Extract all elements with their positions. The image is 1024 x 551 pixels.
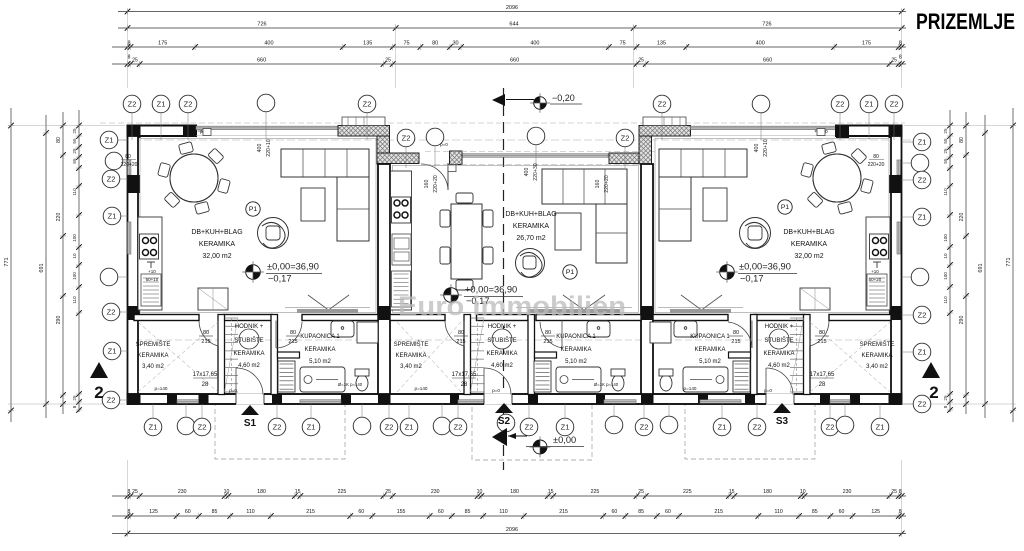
svg-text:60+10: 60+10 xyxy=(146,277,159,282)
svg-text:Z1: Z1 xyxy=(108,211,117,220)
svg-text:p=0: p=0 xyxy=(492,388,500,393)
svg-text:+10: +10 xyxy=(148,269,156,274)
svg-text:110: 110 xyxy=(943,296,948,304)
svg-text:2096: 2096 xyxy=(506,527,518,533)
svg-text:60: 60 xyxy=(358,509,364,515)
svg-text:215: 215 xyxy=(714,509,723,515)
svg-text:225: 225 xyxy=(683,489,692,495)
svg-text:225: 225 xyxy=(591,489,600,495)
svg-text:17x17,65: 17x17,65 xyxy=(452,372,477,378)
svg-text:26,70 m2: 26,70 m2 xyxy=(516,235,545,242)
svg-text:Z1: Z1 xyxy=(561,422,570,431)
svg-text:110: 110 xyxy=(499,509,507,515)
svg-text:Z2: Z2 xyxy=(525,422,534,431)
svg-text:KUPAONICA 1: KUPAONICA 1 xyxy=(690,334,730,340)
svg-text:50+20: 50+20 xyxy=(869,277,882,282)
svg-text:215: 215 xyxy=(817,339,826,345)
svg-text:DB+KUH+BLAG: DB+KUH+BLAG xyxy=(191,229,242,236)
svg-text:KERAMIKA: KERAMIKA xyxy=(513,223,550,230)
svg-text:175: 175 xyxy=(862,40,871,46)
svg-text:KERAMIKA: KERAMIKA xyxy=(763,351,794,357)
svg-text:726: 726 xyxy=(762,21,771,27)
svg-text:75: 75 xyxy=(403,40,409,46)
svg-text:215: 215 xyxy=(456,339,465,345)
svg-text:p=0: p=0 xyxy=(440,142,448,147)
svg-text:−0,20: −0,20 xyxy=(552,93,575,103)
svg-text:S2: S2 xyxy=(498,416,511,427)
svg-text:85: 85 xyxy=(812,509,818,515)
svg-text:±0,00: ±0,00 xyxy=(553,435,576,445)
svg-text:80: 80 xyxy=(432,40,438,46)
svg-text:P1: P1 xyxy=(566,269,575,276)
svg-text:Z1: Z1 xyxy=(918,347,927,356)
svg-text:8: 8 xyxy=(899,509,902,515)
svg-text:Z1: Z1 xyxy=(405,422,414,431)
svg-text:180: 180 xyxy=(763,489,772,495)
svg-text:Z2: Z2 xyxy=(454,422,463,431)
svg-text:SPREMIŠTE: SPREMIŠTE xyxy=(394,341,429,348)
svg-text:220+30: 220+30 xyxy=(533,163,539,181)
svg-text:Z1: Z1 xyxy=(157,99,166,108)
svg-text:Z2: Z2 xyxy=(363,99,372,108)
svg-text:400: 400 xyxy=(530,40,539,46)
svg-text:220+20: 220+20 xyxy=(868,162,885,168)
svg-text:8: 8 xyxy=(128,509,131,515)
svg-text:80: 80 xyxy=(959,137,965,143)
svg-text:215: 215 xyxy=(306,509,315,515)
svg-text:400: 400 xyxy=(524,168,530,177)
svg-text:10: 10 xyxy=(943,253,948,259)
svg-text:10: 10 xyxy=(800,489,806,495)
svg-text:25: 25 xyxy=(943,148,948,154)
svg-text:25: 25 xyxy=(943,395,948,401)
svg-text:80: 80 xyxy=(458,330,464,336)
svg-text:771: 771 xyxy=(1006,257,1012,266)
svg-text:Ø=1K p=140: Ø=1K p=140 xyxy=(594,382,619,387)
svg-text:25: 25 xyxy=(72,128,77,134)
svg-text:28: 28 xyxy=(202,382,209,388)
svg-text:691: 691 xyxy=(39,263,45,272)
svg-text:KERAMIKA: KERAMIKA xyxy=(137,353,168,359)
svg-text:230: 230 xyxy=(178,489,187,495)
svg-text:225: 225 xyxy=(338,489,347,495)
svg-text:25: 25 xyxy=(72,395,77,401)
svg-text:Z2: Z2 xyxy=(640,422,649,431)
svg-text:28: 28 xyxy=(461,382,468,388)
svg-text:2096: 2096 xyxy=(506,5,518,11)
svg-text:771: 771 xyxy=(4,257,10,266)
svg-text:15: 15 xyxy=(295,489,301,495)
svg-text:220+10: 220+10 xyxy=(763,139,769,157)
svg-text:Z1: Z1 xyxy=(718,422,727,431)
svg-text:80: 80 xyxy=(290,330,296,336)
svg-text:Z2: Z2 xyxy=(836,99,845,108)
svg-text:KERAMIKA: KERAMIKA xyxy=(861,353,892,359)
svg-text:Euro immobilien: Euro immobilien xyxy=(398,291,626,321)
svg-text:STUBIŠTE: STUBIŠTE xyxy=(234,337,263,344)
svg-text:PRIZEMLJE: PRIZEMLJE xyxy=(916,9,1015,34)
svg-text:60: 60 xyxy=(611,509,617,515)
svg-text:85: 85 xyxy=(212,509,218,515)
svg-text:60: 60 xyxy=(185,509,191,515)
svg-text:660: 660 xyxy=(763,57,772,63)
svg-text:5,10 m2: 5,10 m2 xyxy=(565,359,587,365)
svg-text:125: 125 xyxy=(149,509,158,515)
svg-text:8: 8 xyxy=(899,55,902,61)
svg-text:Z2: Z2 xyxy=(107,307,116,316)
svg-text:2: 2 xyxy=(94,383,103,402)
svg-text:17x17,65: 17x17,65 xyxy=(193,372,218,378)
svg-text:3,40 m2: 3,40 m2 xyxy=(142,364,164,370)
svg-text:8: 8 xyxy=(899,40,902,46)
svg-text:660: 660 xyxy=(257,57,266,63)
svg-text:25: 25 xyxy=(638,57,644,63)
svg-text:Z1: Z1 xyxy=(918,137,927,146)
svg-text:55: 55 xyxy=(943,158,948,164)
svg-text:5,10 m2: 5,10 m2 xyxy=(309,359,331,365)
svg-text:8: 8 xyxy=(943,405,948,408)
svg-text:644: 644 xyxy=(509,21,518,27)
svg-text:220+20: 220+20 xyxy=(121,162,138,168)
svg-text:8: 8 xyxy=(128,489,131,495)
svg-text:Z2: Z2 xyxy=(753,422,762,431)
svg-text:Z2: Z2 xyxy=(107,395,116,404)
svg-text:8: 8 xyxy=(72,405,77,408)
svg-text:60: 60 xyxy=(665,509,671,515)
svg-text:p=140: p=140 xyxy=(415,386,428,391)
svg-text:Z2: Z2 xyxy=(918,399,927,408)
svg-text:400: 400 xyxy=(257,144,263,153)
svg-text:75: 75 xyxy=(620,40,626,46)
svg-text:100: 100 xyxy=(943,234,948,242)
svg-text:KUPAONICA 1: KUPAONICA 1 xyxy=(556,334,596,340)
svg-text:125: 125 xyxy=(871,509,880,515)
svg-text:215: 215 xyxy=(731,339,740,345)
svg-text:KERAMIKA: KERAMIKA xyxy=(791,241,828,248)
svg-text:Z1: Z1 xyxy=(105,135,114,144)
svg-text:P1: P1 xyxy=(249,206,258,213)
svg-text:Z2: Z2 xyxy=(107,174,116,183)
svg-text:Z2: Z2 xyxy=(826,422,835,431)
svg-text:3,40 m2: 3,40 m2 xyxy=(866,364,888,370)
svg-text:KERAMIKA: KERAMIKA xyxy=(395,353,426,359)
svg-text:290: 290 xyxy=(56,316,62,325)
svg-text:STUBIŠTE: STUBIŠTE xyxy=(487,337,516,344)
svg-text:25: 25 xyxy=(891,489,897,495)
svg-text:S1: S1 xyxy=(244,418,257,429)
svg-text:215: 215 xyxy=(201,339,210,345)
svg-text:80: 80 xyxy=(819,330,825,336)
svg-text:Z2: Z2 xyxy=(184,99,193,108)
svg-text:30: 30 xyxy=(452,40,458,46)
svg-text:220: 220 xyxy=(56,213,62,222)
svg-text:400: 400 xyxy=(756,40,765,46)
svg-text:80: 80 xyxy=(56,137,62,143)
svg-text:Z2: Z2 xyxy=(621,133,630,142)
svg-text:p=0: p=0 xyxy=(229,388,237,393)
svg-text:STUBIŠTE: STUBIŠTE xyxy=(764,337,793,344)
svg-text:160: 160 xyxy=(424,180,430,189)
svg-text:220+20: 220+20 xyxy=(604,175,610,193)
svg-text:Z1: Z1 xyxy=(876,422,885,431)
svg-text:4,60 m2: 4,60 m2 xyxy=(768,363,790,369)
svg-text:155: 155 xyxy=(397,509,406,515)
svg-text:290: 290 xyxy=(959,316,965,325)
svg-text:KERAMIKA: KERAMIKA xyxy=(560,347,591,353)
svg-text:−0,17: −0,17 xyxy=(740,274,764,284)
svg-text:Z1: Z1 xyxy=(149,422,158,431)
svg-text:4,60 m2: 4,60 m2 xyxy=(238,363,260,369)
svg-text:220+10: 220+10 xyxy=(266,139,272,157)
svg-text:25: 25 xyxy=(132,57,138,63)
svg-text:28: 28 xyxy=(819,382,826,388)
svg-text:215: 215 xyxy=(559,509,568,515)
svg-text:±0,00=36,90: ±0,00=36,90 xyxy=(739,262,791,272)
svg-text:KERAMIKA: KERAMIKA xyxy=(304,347,335,353)
svg-text:8: 8 xyxy=(127,40,130,46)
svg-text:220: 220 xyxy=(959,213,965,222)
svg-text:P1: P1 xyxy=(781,204,790,211)
svg-text:32,00 m2: 32,00 m2 xyxy=(794,253,823,260)
svg-text:Ø=1K p=140: Ø=1K p=140 xyxy=(338,382,363,387)
svg-text:135: 135 xyxy=(363,40,372,46)
svg-text:KERAMIKA: KERAMIKA xyxy=(233,351,264,357)
svg-text:5,10 m2: 5,10 m2 xyxy=(699,359,721,365)
svg-text:Z2: Z2 xyxy=(198,422,207,431)
svg-text:110: 110 xyxy=(943,188,948,196)
svg-text:25: 25 xyxy=(72,148,77,154)
svg-text:Z1: Z1 xyxy=(865,99,874,108)
svg-text:KERAMIKA: KERAMIKA xyxy=(694,347,725,353)
svg-text:8: 8 xyxy=(899,489,902,495)
svg-text:Z2: Z2 xyxy=(918,175,927,184)
svg-text:10: 10 xyxy=(477,489,483,495)
svg-text:60: 60 xyxy=(839,509,845,515)
svg-text:180: 180 xyxy=(257,489,266,495)
svg-text:80: 80 xyxy=(545,330,551,336)
svg-text:100: 100 xyxy=(72,272,77,280)
svg-text:±0,00=36,90: ±0,00=36,90 xyxy=(267,262,319,272)
svg-text:Z2: Z2 xyxy=(128,99,137,108)
svg-text:400: 400 xyxy=(754,144,760,153)
svg-text:Z2: Z2 xyxy=(658,99,667,108)
svg-text:p=0: p=0 xyxy=(764,388,772,393)
svg-text:8: 8 xyxy=(128,55,131,61)
svg-text:85: 85 xyxy=(465,509,471,515)
svg-text:110: 110 xyxy=(775,509,783,515)
svg-text:25: 25 xyxy=(132,489,138,495)
svg-text:215: 215 xyxy=(288,339,297,345)
svg-text:15: 15 xyxy=(548,489,554,495)
svg-text:SPREMIŠTE: SPREMIŠTE xyxy=(860,341,895,348)
svg-text:KERAMIKA: KERAMIKA xyxy=(199,241,236,248)
svg-text:Z1: Z1 xyxy=(918,212,927,221)
svg-text:Z2: Z2 xyxy=(402,133,411,142)
svg-text:Z1: Z1 xyxy=(307,422,316,431)
svg-text:25: 25 xyxy=(385,489,391,495)
svg-text:KUPAONICA 1: KUPAONICA 1 xyxy=(300,334,340,340)
svg-text:230: 230 xyxy=(843,489,852,495)
svg-text:DB+KUH+BLAG: DB+KUH+BLAG xyxy=(783,229,834,236)
svg-text:10: 10 xyxy=(224,489,230,495)
svg-text:110: 110 xyxy=(72,188,77,196)
svg-text:220+20: 220+20 xyxy=(433,175,439,193)
svg-text:85: 85 xyxy=(638,509,644,515)
svg-text:25: 25 xyxy=(638,489,644,495)
svg-text:Z1: Z1 xyxy=(108,346,117,355)
svg-text:215: 215 xyxy=(543,339,552,345)
svg-text:+10: +10 xyxy=(871,269,879,274)
svg-text:80: 80 xyxy=(873,154,879,160)
svg-text:DB+KUH+BLAG: DB+KUH+BLAG xyxy=(505,211,556,218)
svg-text:17x17,65: 17x17,65 xyxy=(810,372,835,378)
svg-text:160: 160 xyxy=(595,180,601,189)
svg-text:10: 10 xyxy=(72,253,77,259)
svg-text:80: 80 xyxy=(203,330,209,336)
svg-text:110: 110 xyxy=(72,296,77,304)
svg-text:25: 25 xyxy=(891,57,897,63)
svg-text:80: 80 xyxy=(733,330,739,336)
svg-text:−0,17: −0,17 xyxy=(268,274,292,284)
svg-text:KERAMIKA: KERAMIKA xyxy=(486,351,517,357)
svg-text:Z2: Z2 xyxy=(918,310,927,319)
svg-text:80: 80 xyxy=(125,154,131,160)
svg-text:Z2: Z2 xyxy=(273,422,282,431)
svg-text:55: 55 xyxy=(72,158,77,164)
svg-text:660: 660 xyxy=(510,57,519,63)
svg-text:3,40 m2: 3,40 m2 xyxy=(400,364,422,370)
svg-text:230: 230 xyxy=(431,489,440,495)
svg-text:25: 25 xyxy=(943,128,948,134)
svg-text:2: 2 xyxy=(929,383,938,402)
svg-text:175: 175 xyxy=(158,40,167,46)
svg-text:100: 100 xyxy=(72,234,77,242)
svg-text:p=140: p=140 xyxy=(684,386,697,391)
svg-text:15: 15 xyxy=(729,489,735,495)
svg-text:Z2: Z2 xyxy=(385,422,394,431)
svg-text:100: 100 xyxy=(943,272,948,280)
svg-text:25: 25 xyxy=(385,57,391,63)
svg-text:S3: S3 xyxy=(776,416,789,427)
svg-text:691: 691 xyxy=(978,263,984,272)
svg-text:4,60 m2: 4,60 m2 xyxy=(491,363,513,369)
svg-text:400: 400 xyxy=(264,40,273,46)
svg-text:SPREMIŠTE: SPREMIŠTE xyxy=(136,341,171,348)
svg-text:180: 180 xyxy=(510,489,519,495)
svg-text:Z2: Z2 xyxy=(890,99,899,108)
svg-text:p=140: p=140 xyxy=(155,386,168,391)
svg-text:135: 135 xyxy=(657,40,666,46)
svg-text:110: 110 xyxy=(246,509,254,515)
svg-text:60: 60 xyxy=(438,509,444,515)
svg-text:726: 726 xyxy=(257,21,266,27)
svg-text:32,00 m2: 32,00 m2 xyxy=(202,253,231,260)
